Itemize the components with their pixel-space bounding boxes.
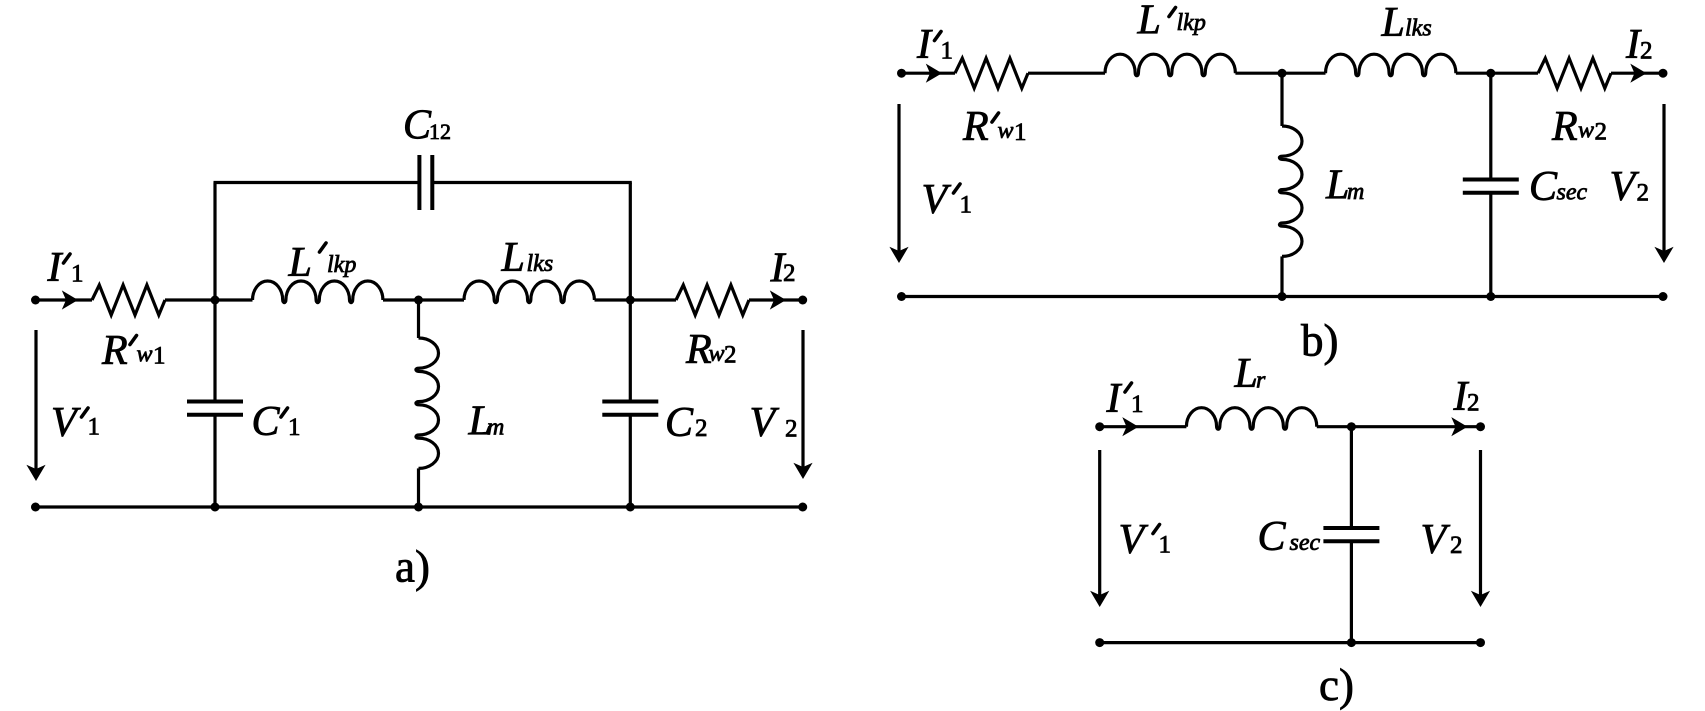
node: right junction (a) — [626, 296, 635, 305]
label I'1 (c) — [1106, 376, 1144, 422]
wire: input lead from terminal to R'w1 (b) — [902, 72, 956, 75]
label Rw2 (b) — [1551, 104, 1607, 150]
inductor Lr (c) — [1186, 408, 1316, 430]
label C2 (a) — [665, 400, 708, 446]
inductor Lm (b) — [1279, 126, 1302, 256]
svg-text:2: 2 — [695, 415, 708, 442]
node: bottom Csec junction (b) — [1486, 292, 1495, 301]
wire: Llks to Rw2 across Csec node (b) — [1456, 72, 1538, 75]
svg-text:L: L — [288, 240, 312, 286]
wire: Lm node down to coil (b) — [1280, 73, 1283, 126]
inductor L'lkp (a) — [253, 281, 383, 303]
svg-text:V: V — [1421, 517, 1451, 563]
node: middle junction (a) — [414, 296, 423, 305]
wire: bottom rail (b) — [902, 295, 1664, 298]
label Lr (c) — [1234, 351, 1267, 397]
wire: Lm coil down to bottom rail (b) — [1280, 256, 1283, 296]
current arrow for I'1 (c) — [1122, 417, 1138, 436]
wire: Lr to output terminal across Csec node (c) — [1317, 425, 1481, 428]
svg-text:2: 2 — [785, 416, 798, 443]
node: bottom C2 junction (a) — [626, 503, 635, 512]
label Csec (b) — [1529, 164, 1587, 210]
svg-text:I: I — [916, 22, 933, 68]
node: Csec junction (c) — [1347, 422, 1356, 431]
capacitor C2 (a) — [602, 402, 658, 415]
svg-text:1: 1 — [71, 261, 84, 288]
svg-text:1: 1 — [153, 343, 166, 370]
svg-text:1: 1 — [941, 38, 954, 65]
label Lm (a) — [468, 399, 505, 445]
node: input terminal (b) — [897, 69, 906, 78]
wire: Csec down to bottom rail (c) — [1350, 541, 1353, 642]
svg-text:2: 2 — [1450, 532, 1463, 559]
label V2 (c) — [1421, 517, 1463, 563]
svg-text:R: R — [962, 104, 989, 150]
inductor Llks (a) — [464, 281, 594, 303]
label L'lkp (a) — [288, 240, 357, 286]
current arrow for I2 (b) — [1630, 64, 1646, 83]
label C'1 (a) — [252, 399, 301, 445]
label Llks (a) — [501, 235, 554, 281]
wire: node down to C'1 (a) — [213, 300, 216, 402]
label I2 (b) — [1625, 22, 1653, 68]
label I2 (a) — [770, 246, 796, 292]
inductor Lm (a) — [416, 338, 439, 468]
svg-text:m: m — [1347, 179, 1364, 205]
node: bottom right terminal (b) — [1659, 292, 1668, 301]
label Rw2 (a) — [685, 327, 737, 373]
node: bottom right terminal (c) — [1476, 638, 1485, 647]
label V2 (b) — [1610, 164, 1650, 210]
wire: bottom rail (c) — [1100, 641, 1481, 644]
label Llks (b) — [1381, 0, 1432, 46]
current arrow for I'1 (a) — [62, 290, 78, 309]
node: Csec junction (b) — [1486, 69, 1495, 78]
svg-text:lks: lks — [527, 251, 554, 277]
label C12 (a) — [403, 103, 451, 149]
svg-text:2: 2 — [1595, 119, 1608, 146]
svg-text:2: 2 — [1640, 38, 1653, 65]
svg-text:lkp: lkp — [1177, 10, 1206, 36]
node: bottom C'1 junction (a) — [211, 503, 220, 512]
svg-text:2: 2 — [783, 260, 796, 287]
svg-text:L: L — [1137, 0, 1161, 44]
svg-text:1: 1 — [288, 414, 301, 441]
svg-text:1: 1 — [1159, 532, 1172, 559]
svg-text:C: C — [403, 103, 432, 149]
wire: right node down to C2 (a) — [629, 300, 632, 402]
capacitor C'1 (a) — [187, 402, 243, 415]
label V'1 (a) — [51, 400, 100, 446]
wire: R'w1 to L'lkp (b) — [1028, 72, 1105, 75]
svg-text:c): c) — [1319, 660, 1354, 710]
svg-text:R: R — [101, 328, 128, 374]
wire: top rail right of C12 (a) — [432, 181, 632, 184]
wire: Llks to Rw2 (a) — [595, 298, 677, 301]
svg-text:1: 1 — [1131, 391, 1144, 418]
node: bottom left terminal (b) — [897, 292, 906, 301]
node: bottom left terminal (a) — [31, 503, 40, 512]
current arrow for I'1 (b) — [926, 64, 942, 83]
svg-text:sec: sec — [1290, 530, 1321, 556]
inductor Llks (b) — [1326, 54, 1456, 76]
svg-text:L: L — [1325, 163, 1349, 209]
wire: R'w1 to L'lkp with node (a) — [165, 298, 253, 301]
svg-text:C: C — [252, 399, 281, 445]
svg-text:w: w — [1578, 118, 1594, 144]
node: input terminal (a) — [31, 296, 40, 305]
svg-text:w: w — [709, 341, 725, 367]
label I2 (c) — [1453, 374, 1480, 420]
svg-text:a): a) — [395, 542, 430, 592]
node: bottom Lm junction (b) — [1278, 292, 1287, 301]
svg-text:w: w — [137, 342, 153, 368]
wire: bottom rail (a) — [36, 505, 803, 508]
svg-text:V: V — [750, 400, 780, 446]
svg-text:C: C — [1529, 164, 1558, 210]
label V'1 (c) — [1119, 517, 1172, 563]
wire: Csec down to bottom rail (b) — [1489, 193, 1492, 297]
svg-text:12: 12 — [429, 119, 451, 144]
svg-text:V: V — [922, 177, 952, 223]
node: input terminal (c) — [1095, 422, 1104, 431]
svg-text:L: L — [1381, 0, 1405, 46]
node: Lm junction (b) — [1278, 69, 1287, 78]
svg-text:L: L — [1234, 351, 1258, 397]
resistor Rw2 (b) — [1538, 58, 1611, 88]
svg-text:2: 2 — [1637, 180, 1650, 207]
svg-text:lkp: lkp — [327, 252, 356, 278]
label L'lkp (b) — [1137, 0, 1206, 44]
wire: Csec node down to plates (c) — [1350, 427, 1353, 528]
node: bottom left terminal (c) — [1095, 638, 1104, 647]
svg-text:sec: sec — [1557, 180, 1588, 206]
label Csec (c) — [1258, 514, 1321, 560]
node: output terminal (a) — [798, 296, 807, 305]
svg-text:lks: lks — [1405, 16, 1432, 42]
wire: input lead from terminal to R'w1 (a) — [36, 298, 93, 301]
current arrow for I2 (a) — [770, 290, 786, 309]
svg-text:L: L — [501, 235, 525, 281]
svg-text:V: V — [1610, 164, 1640, 210]
svg-text:1: 1 — [1014, 119, 1027, 146]
voltage arrow V2 (c) — [1471, 450, 1490, 607]
label I'1 (b) — [916, 22, 953, 68]
wire: left vertical of C12 loop (a) — [213, 183, 216, 301]
current arrow for I2 (c) — [1451, 417, 1467, 436]
svg-text:V: V — [1119, 517, 1149, 563]
voltage arrow V2 (b) — [1654, 104, 1673, 263]
svg-text:C: C — [1258, 514, 1287, 560]
capacitor Csec (c) — [1323, 528, 1379, 541]
svg-text:2: 2 — [1467, 390, 1480, 417]
resistor Rw2 (a) — [676, 285, 749, 315]
wire: Rw2 to output terminal (b) — [1611, 72, 1663, 75]
wire: Lm down to bottom rail (a) — [417, 468, 420, 507]
label Lm (b) — [1325, 163, 1364, 209]
capacitor Csec (b) — [1463, 180, 1519, 193]
resistor R'w1 (a) — [92, 285, 165, 315]
voltage arrow V'1 (b) — [889, 104, 908, 263]
label R'w1 (b) — [962, 104, 1027, 150]
wire: Rw2 to output terminal (a) — [749, 298, 803, 301]
wire: middle node down to Lm (a) — [417, 300, 420, 338]
wire: L'lkp to Llks across middle node (a) — [383, 298, 464, 301]
node: bottom Csec junction (c) — [1347, 638, 1356, 647]
voltage arrow V'1 (a) — [26, 330, 45, 481]
node: output terminal (c) — [1476, 422, 1485, 431]
wire: Csec node down to plates (b) — [1489, 73, 1492, 179]
svg-text:I: I — [47, 245, 64, 291]
node: bottom Lm junction (a) — [414, 503, 423, 512]
label I'1 (a) — [47, 245, 84, 291]
svg-text:m: m — [487, 415, 504, 441]
voltage arrow V'1 (c) — [1090, 450, 1109, 607]
svg-text:R: R — [1551, 104, 1578, 150]
resistor R'w1 (b) — [955, 58, 1028, 88]
svg-text:I: I — [1106, 376, 1123, 422]
svg-text:V: V — [51, 400, 81, 446]
wire: C2 down to bottom rail (a) — [629, 415, 632, 507]
svg-text:w: w — [998, 118, 1014, 144]
wire: right vertical of C12 loop (a) — [629, 183, 632, 301]
voltage arrow V2 (a) — [793, 330, 812, 479]
inductor L'lkp (b) — [1105, 54, 1235, 76]
svg-text:1: 1 — [960, 192, 973, 219]
wire: top rail left of C12 (a) — [214, 181, 420, 184]
svg-text:C: C — [665, 400, 694, 446]
label V2 (a) — [750, 400, 798, 446]
svg-text:2: 2 — [724, 342, 737, 369]
wire: input lead from terminal to Lr (c) — [1100, 425, 1187, 428]
wire: L'lkp to Llks across Lm node (b) — [1235, 72, 1325, 75]
node: output terminal (b) — [1659, 69, 1668, 78]
svg-text:1: 1 — [88, 414, 101, 441]
node: left junction (a) — [211, 296, 220, 305]
svg-text:r: r — [1256, 368, 1266, 394]
label V'1 (b) — [922, 177, 973, 223]
capacitor C12 (a) — [419, 155, 432, 210]
wire: C'1 down to bottom rail (a) — [213, 415, 216, 507]
label R'w1 (a) — [101, 328, 166, 374]
svg-text:b): b) — [1301, 316, 1339, 366]
node: bottom right terminal (a) — [798, 503, 807, 512]
